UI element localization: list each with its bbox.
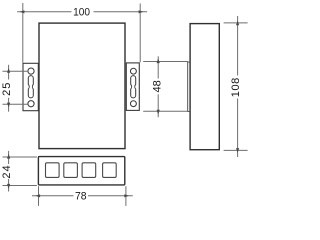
svg-text:25: 25 <box>1 82 13 96</box>
right mounting ear <box>126 63 139 111</box>
side view body <box>190 24 219 150</box>
dimension 78 extension line left <box>38 186 40 206</box>
dimension 24 arrow bottom <box>7 184 10 189</box>
left ear bottom hole <box>28 101 34 107</box>
dimension 48 arrow bottom <box>157 110 160 115</box>
dimension 108 arrow top <box>236 20 239 25</box>
dimension 48 extension line bottom <box>143 110 188 112</box>
dimension 25 arrow bottom <box>7 103 10 108</box>
svg-text:48: 48 <box>151 80 163 92</box>
dimension 24 extension line bottom <box>3 185 37 187</box>
svg-text:100: 100 <box>73 6 90 18</box>
svg-text:78: 78 <box>75 190 87 202</box>
dimension 100 arrow right <box>139 10 144 13</box>
dimension 78 arrow right <box>124 194 129 197</box>
right ear bottom hole <box>130 101 136 107</box>
dimension 48 extension line top <box>143 61 188 63</box>
dimension 25 line <box>8 65 10 80</box>
dimension 48 arrow top <box>157 58 160 63</box>
dimension 25 arrow top <box>7 68 10 73</box>
dimension 100 extension line left <box>22 3 24 63</box>
dimension 78 arrow left <box>35 194 40 197</box>
dimension 100 extension line right <box>139 4 141 63</box>
dimension 108 extension line top <box>224 22 248 24</box>
side view ear profile <box>188 62 190 111</box>
connector square 3 <box>82 163 96 178</box>
bottom view body <box>38 157 124 185</box>
svg-text:24: 24 <box>1 164 13 178</box>
left ear slot <box>28 76 33 98</box>
dimension 100 arrow left <box>20 10 25 13</box>
left mounting ear <box>23 63 38 110</box>
dimension 25 extension line top <box>3 70 28 72</box>
dimension 78 extension line right <box>125 186 127 206</box>
dimension 48 line <box>157 56 159 78</box>
dimension 100 line <box>17 11 71 13</box>
connector square 1 <box>46 163 60 178</box>
dimension 24 line <box>8 151 10 164</box>
dimension 24 arrow top <box>7 154 10 159</box>
connector square 2 <box>64 163 78 178</box>
dimension 78 line <box>32 195 74 197</box>
left ear top hole <box>28 68 34 74</box>
right ear slot <box>131 76 136 98</box>
dimension 25 extension line bottom <box>3 103 28 105</box>
right ear top hole <box>130 68 136 74</box>
dimension 108 line <box>237 16 239 76</box>
dimension 108 extension line bottom <box>224 149 248 151</box>
svg-text:108: 108 <box>230 77 242 97</box>
dimension 24 extension line top <box>3 156 37 158</box>
connector square 4 <box>103 163 117 178</box>
dimension 108 arrow bottom <box>236 148 239 153</box>
top view body <box>39 23 125 149</box>
